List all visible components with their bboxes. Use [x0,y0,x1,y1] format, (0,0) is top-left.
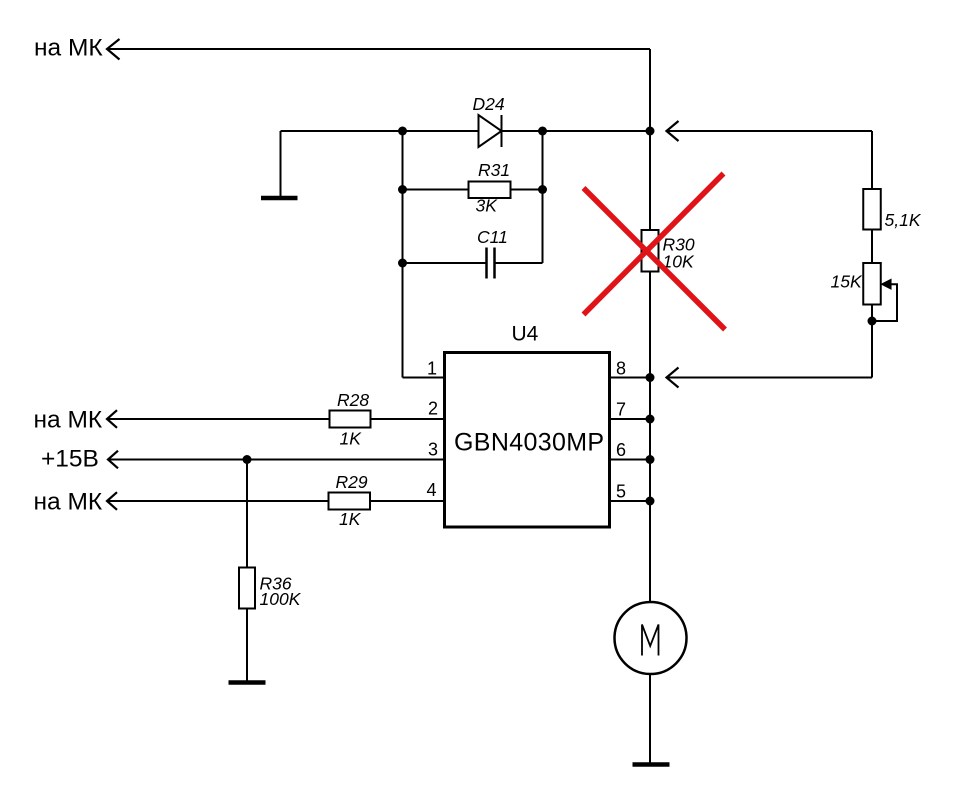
svg-text:на МК: на МК [34,489,103,516]
label D24 [473,94,505,114]
svg-text:4: 4 [426,480,436,500]
svg-text:8: 8 [616,359,626,379]
svg-text:5,1K: 5,1K [885,210,922,230]
value 1K (R28) [340,429,363,449]
value 1K (R29) [339,509,362,529]
arrow to МК (top) [107,39,120,60]
arrow into node C [667,121,679,141]
label C11 [477,227,508,247]
wire right vertical upper [871,131,873,189]
pin 3 [428,440,438,460]
red cross line 1 [584,188,726,330]
wire top vertical drop [649,49,651,131]
arrow to +15В [108,451,118,469]
wire anode [403,130,479,132]
pin 1 [427,359,437,379]
wire C11 right [496,262,543,264]
svg-text:3: 3 [428,440,438,460]
IC U4 [445,353,610,528]
wire pin 8 [610,377,651,379]
node pin7 junction [646,415,655,424]
value 100K [260,589,302,609]
node +15В [41,446,99,473]
label R30 [663,235,695,255]
wire R36 lower [246,609,248,682]
wire right vertical lower [871,305,873,378]
resistor R28 [330,411,371,428]
svg-text:1K: 1K [339,509,362,529]
resistor R36 [239,568,255,609]
wire bottom-right horizontal [667,377,872,379]
resistor 5,1K [863,189,881,230]
svg-text:GBN4030MP: GBN4030MP [454,429,604,457]
pin 4 [426,480,436,500]
wire motor to ground [649,674,651,763]
arrow to МК (pin 2) [107,410,117,428]
value 5,1K [885,210,922,230]
node B junction [538,127,547,136]
node C11 left junction [398,259,407,268]
wire pin 6 [610,459,651,461]
svg-text:R28: R28 [337,390,369,410]
svg-text:6: 6 [616,440,626,460]
label R29 [336,472,368,492]
wire pin 2 row [108,418,445,420]
svg-text:5: 5 [616,482,626,502]
node на МК (pin 4) [34,489,103,516]
pin 5 [616,482,626,502]
label U4 [512,323,539,346]
svg-text:R29: R29 [336,472,368,492]
wire main vertical [649,131,651,602]
node на МК (top) [34,35,103,62]
svg-text:U4: U4 [512,323,539,346]
red cross line 2 [584,174,724,315]
svg-text:C11: C11 [477,227,508,247]
svg-text:15K: 15K [831,272,863,292]
arrow to МК (pin 4) [107,492,117,510]
wire top-right horizontal [667,130,872,132]
svg-text:100K: 100K [260,589,302,609]
svg-text:на МК: на МК [34,35,103,62]
value 10K [663,252,695,272]
wire between 5,1K and pot [871,230,873,264]
node на МК (pin 2) [34,407,103,434]
label GBN4030MP [454,429,604,457]
ground (top left) [261,131,298,198]
wire top horizontal [108,48,651,50]
wire C11 left [403,262,486,264]
value 15K [831,272,863,292]
svg-text:7: 7 [616,400,626,420]
pin 7 [616,400,626,420]
wire pin 7 [610,418,651,420]
node R31 right junction [538,185,547,194]
resistor R30 [642,230,659,272]
motor M [615,602,687,674]
svg-text:на МК: на МК [34,407,103,434]
node wiper junction [868,317,877,326]
label R31 [478,160,510,180]
wire R31 row [403,189,543,191]
node R31 left junction [398,185,407,194]
wire pin 1 [403,377,445,379]
label R36 [260,574,292,594]
pin 8 [616,359,626,379]
wire node B to main node [543,130,651,132]
node pin6 junction [646,455,655,464]
wire pin 4 row [108,500,445,502]
resistor R31 [469,182,511,199]
wire small-loop right vertical [542,131,544,263]
wiper arrow of 15K [872,280,897,321]
arrow into pin 8 node [667,368,679,388]
svg-text:2: 2 [428,399,438,419]
ground (R36) [229,680,266,685]
pin 6 [616,440,626,460]
wire pin 3 row [109,459,445,461]
node A junction [398,127,407,136]
svg-text:3K: 3K [476,196,499,216]
capacitor C11 [487,248,495,279]
svg-text:R31: R31 [478,160,510,180]
diode D24 [479,115,502,147]
wire ground to node A [281,130,403,132]
wire R36 upper [246,460,248,568]
resistor R29 [329,493,371,510]
pin 2 [428,399,438,419]
svg-text:1K: 1K [340,429,363,449]
ground (motor) [633,762,670,767]
node R36 top junction [243,455,252,464]
svg-text:D24: D24 [473,94,505,114]
node pin5 junction [646,497,655,506]
node C junction (main vertical, top) [646,127,655,136]
wire cathode [502,130,543,132]
wire left vertical [402,131,404,378]
label R28 [337,390,369,410]
svg-text:+15В: +15В [41,446,99,473]
svg-text:1: 1 [427,359,437,379]
potentiometer 15K [863,263,881,305]
wire pin 5 [610,500,651,502]
value 3K [476,196,499,216]
node pin8 junction [646,373,655,382]
